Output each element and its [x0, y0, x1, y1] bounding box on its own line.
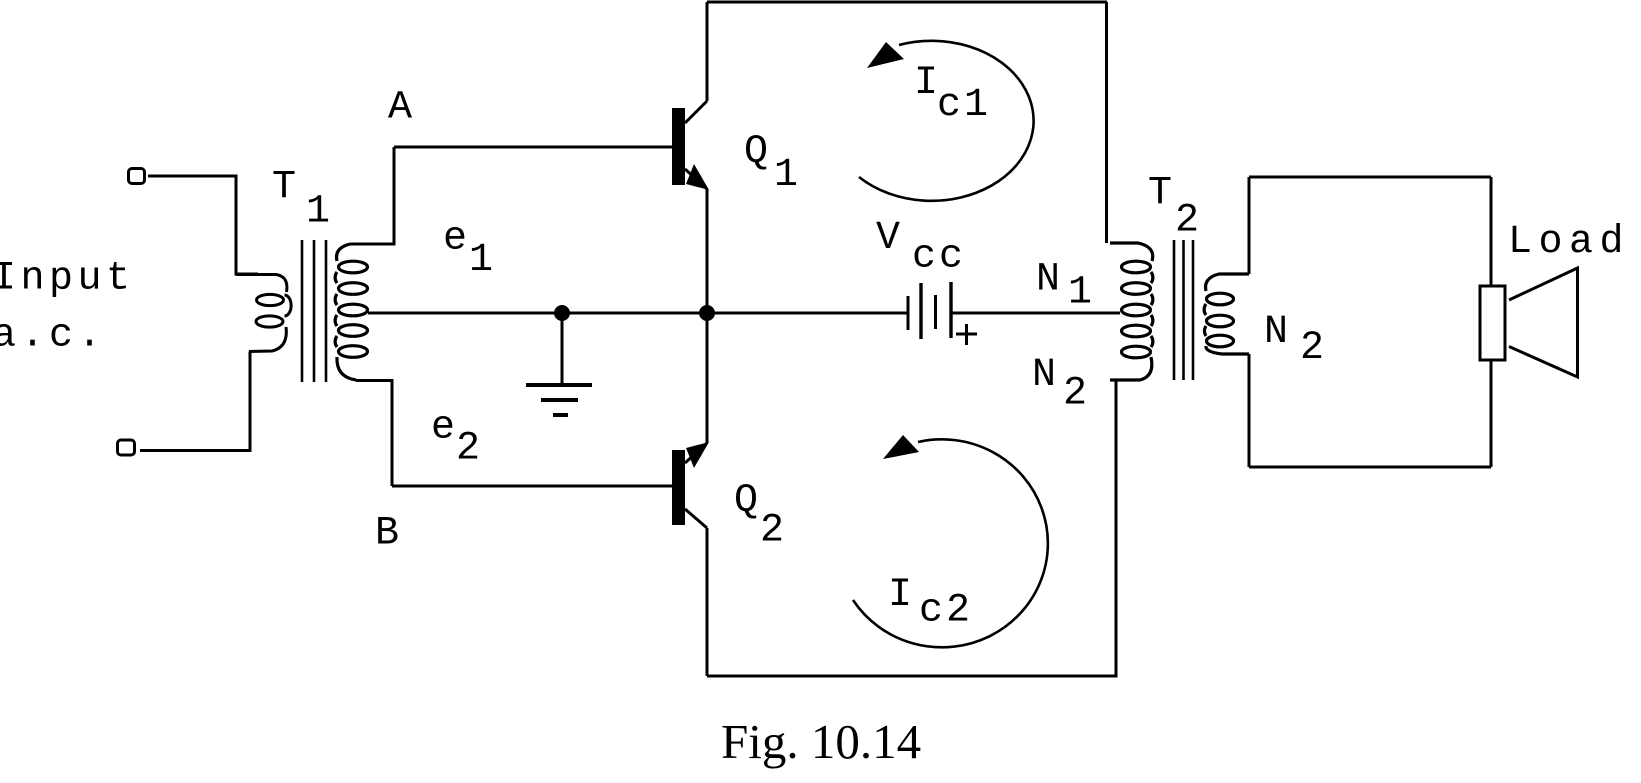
svg-text:I: I — [888, 573, 912, 618]
svg-text:2: 2 — [1063, 372, 1087, 417]
svg-text:N: N — [1032, 353, 1056, 398]
wire input bottom to T1 primary — [140, 352, 250, 451]
wire T1 secondary bottom to node B corner — [356, 381, 392, 487]
wire T1 secondary top to node A corner — [350, 147, 394, 244]
wire output loop bottom rail — [707, 675, 1118, 678]
svg-text:T: T — [272, 166, 296, 211]
arrow Ic1 — [867, 42, 904, 68]
svg-text:e: e — [443, 217, 467, 262]
arrow Ic2 — [883, 435, 919, 459]
wire input top to T1 primary — [148, 176, 258, 274]
wire Q2 collector to bottom rail — [706, 528, 709, 676]
wire load loop left upper — [1248, 177, 1251, 274]
wire load loop right — [1490, 177, 1493, 467]
input terminal top — [129, 169, 145, 184]
wire output loop top rail — [707, 1, 1107, 4]
wire Q1 collector to top rail — [706, 2, 709, 101]
wire ground stem — [561, 313, 564, 383]
svg-text:I: I — [914, 61, 938, 106]
svg-text:1: 1 — [1068, 271, 1092, 316]
wire battery right to T2 center tap — [951, 312, 1120, 315]
node dot at ground junction — [556, 307, 569, 320]
svg-text:Input: Input — [0, 257, 135, 302]
wire T1 center tap to ground node — [368, 312, 562, 315]
load speaker — [1480, 268, 1578, 377]
transformer T2 core — [1174, 240, 1193, 380]
svg-text:Q: Q — [744, 130, 768, 175]
svg-text:2: 2 — [1300, 326, 1324, 371]
svg-text:Q: Q — [734, 479, 758, 524]
wire output loop right upper — [1105, 2, 1108, 243]
transformer T1 primary coil — [236, 275, 291, 352]
node dot at emitter junction — [701, 307, 714, 320]
svg-text:c2: c2 — [919, 589, 973, 634]
svg-text:B: B — [375, 512, 399, 557]
transistor Q2 — [672, 442, 709, 528]
svg-text:N: N — [1036, 258, 1060, 303]
transformer T2 primary coil — [1110, 243, 1153, 380]
svg-text:1: 1 — [774, 153, 798, 198]
wire battery left — [707, 312, 908, 315]
svg-text:c1: c1 — [937, 83, 991, 128]
wire ground node to emitter node — [562, 312, 707, 315]
svg-text:N: N — [1264, 310, 1288, 355]
svg-text:1: 1 — [306, 190, 330, 235]
wire Q1 emitter / Q2 emitter to center node — [706, 189, 709, 443]
svg-text:e: e — [431, 406, 455, 451]
svg-text:T: T — [1148, 172, 1172, 217]
transistor Q1 — [672, 101, 709, 190]
svg-text:cc: cc — [912, 235, 966, 280]
wire load loop left lower — [1248, 354, 1251, 467]
battery Vcc — [908, 282, 951, 339]
transformer T1 core — [302, 240, 326, 382]
wire load loop bottom — [1249, 466, 1491, 469]
wire load loop top — [1249, 176, 1491, 179]
battery plus sign — [956, 324, 977, 345]
svg-text:Fig. 10.14: Fig. 10.14 — [721, 714, 921, 769]
svg-text:V: V — [876, 216, 900, 261]
current loop Ic2 — [853, 439, 1048, 647]
ground — [526, 385, 592, 415]
svg-text:Load: Load — [1508, 220, 1630, 265]
svg-text:2: 2 — [1175, 199, 1199, 244]
svg-text:2: 2 — [456, 427, 480, 472]
svg-text:a.c.: a.c. — [0, 314, 106, 359]
current loop Ic1 — [859, 41, 1034, 201]
transformer T1 secondary coil — [335, 244, 367, 380]
wire node A to Q1 base — [394, 146, 672, 149]
transformer T2 secondary coil — [1204, 274, 1249, 354]
svg-text:1: 1 — [469, 238, 493, 283]
svg-text:2: 2 — [760, 509, 784, 554]
wire output loop right lower — [1115, 380, 1118, 676]
input terminal bottom — [118, 440, 135, 455]
svg-text:A: A — [388, 86, 412, 131]
wire node B to Q2 base — [392, 485, 672, 488]
